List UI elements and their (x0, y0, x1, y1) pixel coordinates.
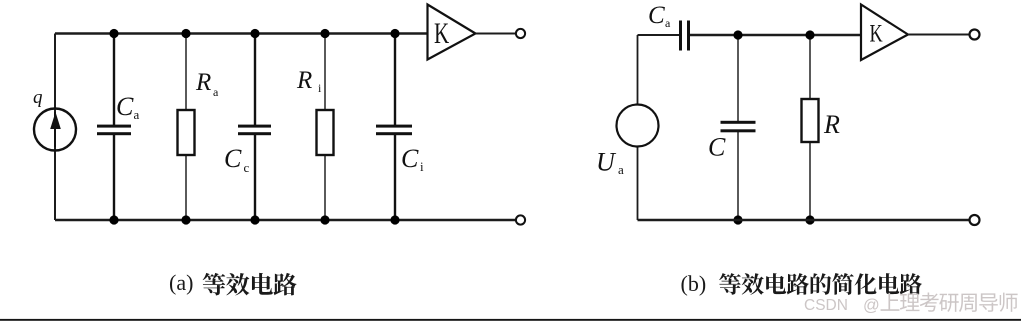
terminal: top output (a) (516, 29, 525, 38)
svg-text:a: a (213, 85, 219, 99)
svg-text:(a): (a) (169, 270, 193, 295)
svg-text:a: a (134, 107, 140, 122)
svg-text:K: K (434, 16, 449, 50)
wire: left vertical of circuit (a) (54, 34, 56, 221)
wire: top rail of circuit (a) (55, 32, 428, 34)
junction dot Cc bottom (250, 215, 259, 224)
wire: Cc branch (254, 34, 256, 221)
capacitor C (721, 121, 756, 133)
wire: C branch (b) (737, 35, 739, 220)
svg-text:q: q (33, 87, 43, 108)
op-amp K (circuit b) (861, 5, 908, 61)
junction dot R top (805, 30, 814, 39)
wire: R branch (b) (809, 35, 811, 220)
junction dot Ra bottom (181, 215, 190, 224)
svg-text:C: C (648, 2, 665, 29)
junction dot Ra top (181, 29, 190, 38)
resistor R (802, 99, 819, 142)
wire: Ra branch (185, 34, 187, 221)
label K (circuit b) (870, 20, 883, 47)
svg-text:c: c (244, 160, 250, 175)
svg-text:(b): (b) (681, 271, 707, 296)
svg-text:i: i (420, 159, 424, 174)
capacitor Ci (376, 125, 412, 136)
svg-text:K: K (870, 20, 883, 47)
svg-text:C: C (116, 92, 134, 121)
capacitor Cc (238, 125, 271, 136)
wire: bottom rail of circuit (b) (638, 219, 970, 221)
svg-text:a: a (618, 162, 624, 177)
wire: amp output (b) (908, 34, 969, 36)
capacitor Ca (97, 125, 131, 136)
caption (b) Chinese: 等效电路的简化电路 (719, 273, 922, 295)
resistor Ra (178, 110, 195, 155)
wire: amp output (a) (476, 33, 516, 35)
junction dot R bottom (805, 215, 814, 224)
junction dot Ci top (390, 29, 399, 38)
op-amp K (circuit a) (428, 5, 476, 60)
watermark Chinese: 上理考研周导师 (881, 293, 1018, 312)
label K (circuit a) (434, 16, 449, 50)
junction dot Ri bottom (320, 215, 329, 224)
svg-text:R: R (195, 69, 211, 96)
wire: left vertical of circuit (b) (637, 35, 639, 220)
caption (a) Chinese: 等效电路 (203, 273, 297, 296)
junction dot Cc top (250, 29, 259, 38)
wire: Ri branch (324, 34, 326, 221)
junction dot Ri top (320, 29, 329, 38)
svg-text:R: R (296, 67, 312, 94)
capacitor Ca (series) (679, 21, 690, 51)
terminal: bottom output (a) (516, 215, 525, 224)
junction dot Ca bottom (109, 215, 118, 224)
wire: bottom rail of circuit (a) (55, 219, 516, 221)
junction dot Ci bottom (390, 215, 399, 224)
junction dot Ca top (109, 29, 118, 38)
voltage source Ua (617, 105, 659, 147)
svg-text:CSDN: CSDN (804, 297, 848, 314)
svg-text:C: C (224, 144, 242, 173)
svg-text:U: U (596, 148, 617, 177)
resistor Ri (317, 110, 334, 155)
wire: Ca branch (113, 34, 115, 221)
svg-text:C: C (708, 133, 726, 162)
svg-text:C: C (401, 144, 419, 173)
terminal: bottom output (b) (970, 215, 980, 225)
wire: top rail of circuit (b), left of Ca (638, 34, 680, 36)
svg-text:a: a (665, 16, 671, 30)
junction dot C top (733, 30, 742, 39)
current source q (34, 109, 76, 151)
wire: top rail of circuit (b), right of Ca (690, 34, 861, 36)
svg-text:R: R (823, 110, 840, 139)
junction dot C bottom (733, 215, 742, 224)
svg-text:@: @ (863, 297, 880, 315)
terminal: top output (b) (970, 30, 980, 40)
wire: Ci branch (394, 34, 396, 221)
bottom border line (0, 319, 1021, 321)
